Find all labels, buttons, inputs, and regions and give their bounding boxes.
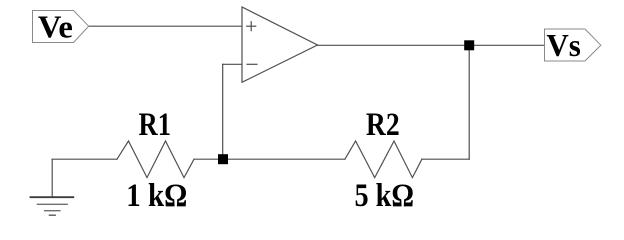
svg-text:1 kΩ: 1 kΩ [126,178,187,214]
svg-text:5 kΩ: 5 kΩ [355,178,415,214]
svg-text:R2: R2 [366,107,400,143]
svg-text:Ve: Ve [38,10,73,45]
svg-text:Vs: Vs [546,27,581,63]
svg-text:R1: R1 [139,107,172,143]
